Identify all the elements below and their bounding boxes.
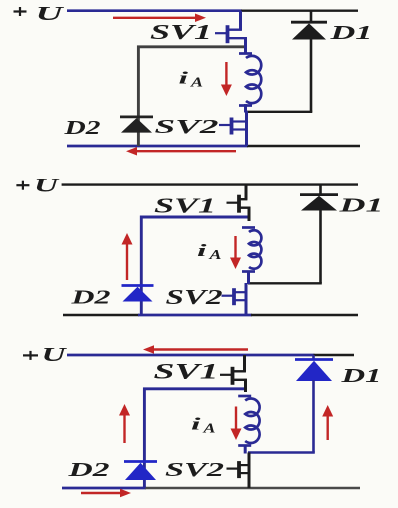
svg-text:SV2: SV2 (165, 459, 224, 481)
svg-text:D1: D1 (340, 365, 382, 387)
svg-text:i: i (179, 69, 189, 88)
svg-text:i: i (191, 415, 201, 434)
svg-text:SV1: SV1 (150, 20, 212, 44)
svg-text:A: A (190, 75, 203, 90)
svg-text:SV1: SV1 (154, 194, 216, 218)
svg-text:D1: D1 (329, 22, 373, 44)
svg-text:D2: D2 (67, 459, 110, 481)
svg-text:D2: D2 (70, 287, 111, 309)
svg-text:i: i (197, 241, 207, 260)
svg-text:U: U (36, 3, 66, 25)
svg-text:A: A (208, 247, 221, 262)
svg-text:U: U (34, 176, 60, 197)
svg-text:D1: D1 (338, 195, 384, 217)
svg-text:SV2: SV2 (155, 117, 219, 138)
svg-text:D2: D2 (63, 117, 100, 139)
svg-text:U: U (42, 345, 68, 366)
svg-text:A: A (202, 421, 215, 436)
svg-text:SV2: SV2 (166, 285, 224, 309)
svg-text:SV1: SV1 (154, 359, 219, 384)
